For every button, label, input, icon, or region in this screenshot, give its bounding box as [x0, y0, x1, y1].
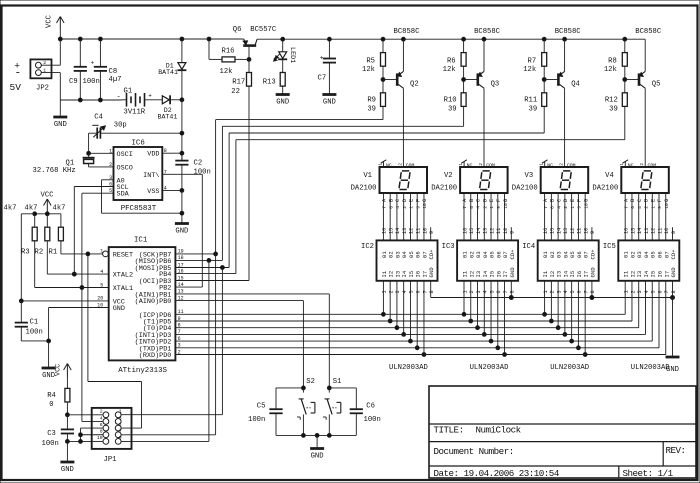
- display V1 segment pin E wire to driver: [409, 193, 415, 240]
- svg-text:G: G: [583, 199, 589, 202]
- driver IC4 pin labels: [542, 249, 596, 278]
- svg-text:R2: R2: [35, 248, 44, 256]
- driver IC5 input 1 wire to bus: [624, 281, 630, 315]
- wire PB5 to digit select net: [175, 266, 229, 270]
- svg-text:6: 6: [469, 206, 475, 209]
- wire driver GND bus: [431, 296, 675, 356]
- svg-text:10: 10: [503, 228, 509, 234]
- svg-text:16: 16: [462, 228, 468, 234]
- svg-text:COM: COM: [486, 162, 495, 168]
- IC6 pin VSS: [147, 185, 184, 196]
- capacitor C5: [248, 388, 303, 436]
- svg-text:C5: C5: [257, 402, 266, 410]
- wire segment bus PD6: [175, 313, 625, 315]
- resistor R9 39: [367, 80, 385, 120]
- svg-text:INT\: INT\: [143, 172, 159, 180]
- svg-text:4: 4: [483, 290, 489, 293]
- svg-text:NC: NC: [547, 162, 553, 168]
- display V4 segment pin C wire to driver: [637, 193, 643, 240]
- svg-text:IC5: IC5: [603, 243, 616, 251]
- svg-text:R17: R17: [232, 78, 245, 86]
- svg-text:39: 39: [367, 105, 376, 113]
- svg-text:GND: GND: [113, 305, 125, 313]
- driver IC3 pin labels: [462, 249, 516, 278]
- resistor R7 12k: [523, 37, 566, 81]
- svg-text:BC858C: BC858C: [555, 28, 582, 36]
- driver IC2 input 7 wire to bus: [422, 281, 428, 357]
- wire segment bus PD4: [175, 327, 638, 329]
- svg-text:9: 9: [415, 206, 421, 209]
- wire backup supply vertical to IC6 VDD: [181, 100, 183, 160]
- display V1 segment pin B wire to driver: [388, 193, 394, 240]
- svg-text:+: +: [91, 60, 95, 67]
- IC1 pin 8 (T0)PD4 label: [143, 323, 181, 334]
- driver IC5 pin 9 CD+ stub: [671, 227, 677, 240]
- svg-text:R10: R10: [444, 96, 457, 104]
- diode D1 BAT41: [158, 37, 186, 100]
- svg-text:Date: 19.04.2006 23:10:54: Date: 19.04.2006 23:10:54: [434, 468, 560, 479]
- svg-text:4k7: 4k7: [53, 204, 66, 212]
- svg-text:C8: C8: [109, 68, 118, 76]
- resistor R10 39: [444, 80, 466, 127]
- svg-text:13: 13: [483, 228, 489, 234]
- svg-text:6: 6: [416, 290, 422, 293]
- driver IC2 pin labels: [381, 249, 435, 278]
- capacitor C8 (polarized): [91, 37, 122, 102]
- wire PB0 to switch S2: [175, 301, 303, 388]
- driver IC2 ULN2003 box: [361, 240, 437, 372]
- wire PB3 to PWM drive: [175, 280, 249, 282]
- svg-text:NC: NC: [628, 162, 634, 168]
- svg-text:7: 7: [623, 206, 629, 209]
- driver IC3 input 1 wire to bus: [462, 281, 468, 316]
- svg-text:CD+: CD+: [589, 249, 596, 260]
- svg-text:R6: R6: [447, 57, 456, 65]
- svg-text:5: 5: [570, 290, 576, 293]
- svg-text:4k7: 4k7: [4, 204, 17, 212]
- svg-text:R5: R5: [366, 57, 375, 65]
- display V2 seven-segment digit: [480, 171, 491, 190]
- svg-text:4: 4: [402, 290, 408, 293]
- svg-text:D: D: [402, 199, 408, 202]
- display V2 segment pin D wire to driver: [482, 193, 488, 240]
- display V4 DA2100 box: [592, 167, 668, 193]
- display V4 segment pin G wire to driver: [664, 193, 670, 240]
- driver IC2 pin 8 GND wire: [429, 281, 435, 298]
- svg-text:100n: 100n: [364, 416, 381, 424]
- svg-text:IC4: IC4: [522, 243, 535, 251]
- driver IC4 input 1 wire to bus: [543, 281, 549, 316]
- svg-text:3: 3: [476, 290, 482, 293]
- wire VCC rail left segment: [58, 30, 243, 41]
- svg-text:8: 8: [164, 148, 167, 154]
- svg-text:Q3: Q3: [491, 80, 500, 88]
- display V3 segment pin C wire to driver: [556, 193, 562, 240]
- svg-text:9: 9: [671, 231, 677, 234]
- svg-text:GND: GND: [509, 267, 516, 278]
- svg-text:1: 1: [543, 290, 549, 293]
- battery G1 3V11R: [117, 87, 163, 116]
- svg-text:V4: V4: [605, 172, 614, 180]
- svg-text:REV:: REV:: [666, 445, 686, 456]
- driver IC5 input 2 wire to bus: [630, 281, 636, 321]
- svg-text:4: 4: [556, 206, 562, 209]
- svg-text:1: 1: [620, 163, 625, 166]
- svg-text:4k7: 4k7: [25, 204, 38, 212]
- svg-text:C: C: [476, 199, 482, 202]
- connector JP1: [92, 408, 132, 464]
- ground below switches: [310, 449, 324, 461]
- svg-text:15: 15: [550, 228, 556, 234]
- svg-text:10: 10: [97, 302, 103, 308]
- display V2 DA2100 box: [431, 167, 507, 193]
- svg-text:GND: GND: [589, 267, 596, 278]
- svg-text:V3: V3: [525, 172, 534, 180]
- svg-text:BC858C: BC858C: [635, 28, 662, 36]
- svg-text:12: 12: [651, 228, 657, 234]
- switch S1: [323, 378, 342, 435]
- svg-text:3: 3: [109, 175, 112, 181]
- svg-text:100n: 100n: [26, 328, 43, 336]
- display V2 segment pin F wire to driver: [496, 193, 502, 240]
- svg-text:COM: COM: [648, 162, 657, 168]
- svg-text:12k: 12k: [443, 66, 456, 74]
- svg-text:8: 8: [671, 290, 677, 293]
- IC6 PCF8583 box: [114, 139, 163, 213]
- ground for drivers (bottom right): [666, 357, 680, 374]
- svg-text:VCC: VCC: [46, 14, 54, 28]
- svg-text:Q5: Q5: [652, 80, 661, 88]
- ground below R13: [276, 95, 290, 107]
- svg-text:10: 10: [422, 228, 428, 234]
- svg-text:CD+: CD+: [670, 249, 677, 260]
- svg-text:10: 10: [664, 228, 670, 234]
- svg-text:F: F: [415, 199, 421, 202]
- IC6 pin OSCO: [89, 162, 133, 173]
- svg-text:7: 7: [462, 206, 468, 209]
- transistor Q6 BC557C: [233, 26, 277, 61]
- IC1 pin 9 (T1)PD5 label: [143, 316, 181, 327]
- svg-text:32.768 KHz: 32.768 KHz: [33, 167, 76, 175]
- wire MOSI vertical to JP1 pin1: [121, 268, 222, 415]
- svg-text:9: 9: [119, 435, 122, 441]
- svg-text:GND: GND: [54, 121, 67, 129]
- svg-text:9: 9: [657, 206, 663, 209]
- svg-text:6: 6: [657, 290, 663, 293]
- wire digit1 select vertical (PB7): [216, 120, 383, 435]
- svg-text:7: 7: [382, 206, 388, 209]
- ground below C7: [322, 95, 336, 107]
- svg-text:R9: R9: [367, 96, 376, 104]
- driver IC4 input 4 wire to bus: [563, 281, 569, 337]
- svg-text:3: 3: [119, 415, 122, 421]
- driver IC3 ULN2003 box: [442, 240, 518, 372]
- svg-text:SDA: SDA: [117, 191, 130, 199]
- svg-text:XTAL1: XTAL1: [113, 285, 133, 293]
- svg-text:2: 2: [563, 206, 569, 209]
- display V3 segment pin F wire to driver: [577, 193, 583, 240]
- svg-text:12k: 12k: [362, 66, 375, 74]
- svg-text:2: 2: [469, 290, 475, 293]
- trimmer capacitor C4 30p: [89, 114, 184, 154]
- svg-text:8: 8: [510, 290, 516, 293]
- driver IC3 input 2 wire to bus: [469, 281, 475, 323]
- wire switch ground row: [276, 434, 356, 448]
- display V1 pin COM: [398, 162, 414, 168]
- svg-text:16: 16: [543, 228, 549, 234]
- driver IC4 input 2 wire to bus: [549, 281, 555, 323]
- svg-text:16: 16: [624, 228, 630, 234]
- svg-text:NC: NC: [386, 162, 392, 168]
- display V3 pin NC: [540, 160, 553, 169]
- svg-text:9: 9: [590, 231, 596, 234]
- svg-text:1: 1: [624, 290, 630, 293]
- svg-text:10: 10: [583, 203, 589, 209]
- svg-text:6: 6: [630, 206, 636, 209]
- svg-text:GND: GND: [311, 453, 324, 461]
- display V3 pin COM: [560, 162, 576, 168]
- resistor R3 4k7: [4, 204, 38, 256]
- svg-text:15: 15: [388, 228, 394, 234]
- svg-text:7: 7: [583, 290, 589, 293]
- display V1 segment pin G wire to driver: [422, 193, 428, 240]
- svg-text:VDD: VDD: [147, 151, 159, 159]
- transistor Q5 BC858C: [625, 28, 662, 88]
- resistor R11 39: [524, 80, 546, 134]
- svg-text:CD+: CD+: [509, 249, 516, 260]
- svg-text:2: 2: [388, 290, 394, 293]
- wire switched VCC rail: [257, 37, 645, 41]
- svg-text:7: 7: [543, 206, 549, 209]
- svg-text:14: 14: [476, 228, 482, 234]
- resistor R5 12k: [362, 37, 405, 81]
- IC6 pin A0 wire to ground net: [102, 175, 184, 215]
- driver IC2 input 5 wire to bus: [409, 281, 415, 343]
- svg-text:R13: R13: [263, 78, 276, 86]
- display V1 segment pin D wire to driver: [402, 193, 408, 240]
- ground below JP2: [53, 100, 67, 129]
- LED1: [274, 39, 296, 72]
- wire segment bus PD5: [175, 320, 632, 322]
- switch S2: [297, 378, 315, 435]
- svg-text:R12: R12: [605, 96, 618, 104]
- svg-text:2: 2: [640, 163, 645, 166]
- svg-text:BC557C: BC557C: [250, 26, 277, 34]
- display V4 pin NC: [620, 160, 633, 169]
- svg-text:12: 12: [570, 228, 576, 234]
- display V4 segment pin A wire to driver: [623, 193, 629, 240]
- svg-text:ULN2003AD: ULN2003AD: [470, 364, 509, 372]
- driver IC5 input 4 wire to bus: [644, 281, 650, 335]
- display V1 pin NC: [378, 160, 391, 169]
- svg-text:(AIN0)PB0: (AIN0)PB0: [135, 298, 172, 306]
- svg-text:100n: 100n: [248, 416, 265, 424]
- wire Q5 collector to display COM: [644, 88, 646, 167]
- wire PB6 to digit select net: [175, 259, 222, 263]
- svg-text:COM: COM: [567, 162, 576, 168]
- svg-text:C4: C4: [94, 114, 103, 122]
- svg-text:6: 6: [577, 290, 583, 293]
- driver IC5 input 6 wire to bus: [657, 281, 663, 348]
- svg-text:C: C: [637, 199, 643, 202]
- svg-text:2: 2: [482, 206, 488, 209]
- svg-text:R8: R8: [608, 57, 617, 65]
- IC6 pin INT wire to IC1 PB2: [143, 169, 202, 287]
- svg-text:JP2: JP2: [36, 84, 49, 92]
- display V4 seven-segment digit: [641, 171, 652, 190]
- display V2 segment pin G wire to driver: [503, 193, 509, 240]
- svg-text:DA2100: DA2100: [592, 184, 618, 192]
- display V2 pin NC: [459, 160, 472, 169]
- svg-text:BC858C: BC858C: [474, 28, 501, 36]
- svg-text:9: 9: [510, 231, 516, 234]
- transistor Q3 BC858C: [464, 28, 501, 88]
- resistor R2 4k7: [25, 204, 50, 256]
- svg-text:4: 4: [476, 206, 482, 209]
- wire R1 to RESET: [61, 241, 103, 256]
- svg-text:16: 16: [382, 228, 388, 234]
- svg-text:12: 12: [409, 228, 415, 234]
- ground below IC6: [175, 190, 189, 235]
- svg-text:6: 6: [550, 206, 556, 209]
- svg-text:5: 5: [100, 282, 103, 288]
- svg-text:CD+: CD+: [428, 249, 435, 260]
- svg-text:7: 7: [503, 290, 509, 293]
- driver IC5 input 7 wire to bus: [664, 281, 670, 355]
- svg-text:RESET: RESET: [113, 251, 133, 259]
- IC1 pin 14 PB2 label: [159, 282, 183, 293]
- crystal Q1 32.768 KHz: [33, 151, 95, 174]
- svg-text:DA2100: DA2100: [431, 184, 457, 192]
- svg-text:Q4: Q4: [571, 80, 580, 88]
- display V4 segment pin D wire to driver: [644, 193, 650, 240]
- svg-text:R16: R16: [222, 47, 235, 55]
- svg-text:DA2100: DA2100: [351, 184, 377, 192]
- IC1 pin 19 (SCK)PB7 label: [139, 249, 184, 260]
- wire JP1 pin4 to SDA: [82, 420, 103, 422]
- resistor R4 0: [47, 377, 70, 417]
- IC6 pin VDD: [147, 148, 184, 159]
- svg-text:TITLE:: TITLE:: [434, 425, 464, 436]
- svg-text:2: 2: [644, 206, 650, 209]
- svg-text:-: -: [117, 94, 121, 102]
- svg-text:2: 2: [479, 163, 484, 166]
- svg-text:E: E: [570, 199, 576, 202]
- svg-text:C1: C1: [30, 318, 39, 326]
- IC1 pin 3 (TXD)PD1 label: [139, 343, 181, 354]
- svg-text:11: 11: [577, 228, 583, 234]
- wire Q2 collector to display COM: [402, 88, 404, 167]
- svg-text:C6: C6: [366, 402, 375, 410]
- resistor R6 12k: [443, 37, 486, 81]
- svg-text:PFC8583T: PFC8583T: [121, 205, 157, 213]
- svg-text:1: 1: [459, 163, 464, 166]
- svg-text:VSS: VSS: [147, 188, 159, 196]
- svg-text:20: 20: [97, 296, 103, 302]
- svg-text:OSCI: OSCI: [117, 151, 133, 159]
- svg-text:2: 2: [100, 409, 103, 415]
- IC1 pin 20 VCC: [19, 296, 125, 307]
- svg-text:G1: G1: [124, 87, 133, 95]
- IC1 pin 17 (MOSI)PB5 label: [135, 262, 184, 273]
- driver IC4 input 7 wire to bus: [583, 281, 589, 357]
- svg-text:4: 4: [164, 185, 167, 191]
- svg-text:13: 13: [644, 228, 650, 234]
- driver IC2 input 2 wire to bus: [388, 281, 394, 323]
- wire SCK to JP1 pin7: [121, 434, 215, 436]
- svg-text:12k: 12k: [604, 66, 617, 74]
- title block TITLE row: [434, 425, 522, 436]
- svg-text:OSCO: OSCO: [117, 164, 133, 172]
- svg-text:11: 11: [657, 228, 663, 234]
- display V3 seven-segment digit: [560, 171, 571, 190]
- svg-text:4: 4: [100, 415, 103, 421]
- svg-text:4: 4: [100, 269, 103, 275]
- svg-text:C: C: [395, 199, 401, 202]
- svg-text:1: 1: [489, 206, 495, 209]
- svg-text:Document Number:: Document Number:: [434, 446, 514, 457]
- svg-text:2: 2: [43, 60, 46, 66]
- svg-text:C2: C2: [194, 159, 203, 167]
- wire Q4 collector to display COM: [564, 88, 566, 167]
- transistor Q4 BC858C: [544, 28, 581, 88]
- driver IC3 input 5 wire to bus: [489, 281, 495, 343]
- svg-text:+: +: [148, 93, 152, 100]
- IC1 pin 16 PB4 label: [159, 268, 183, 279]
- wire segment bus PD0: [175, 354, 665, 356]
- svg-text:1: 1: [540, 163, 545, 166]
- driver IC2 input 3 wire to bus: [395, 281, 401, 330]
- IC1 pin 18 (MISO)PB6 label: [135, 255, 184, 266]
- svg-text:7: 7: [119, 429, 122, 435]
- svg-text:C9: C9: [69, 78, 78, 86]
- svg-text:12k: 12k: [523, 66, 536, 74]
- ground below C3: [60, 441, 74, 474]
- wire segment bus PD1: [175, 347, 659, 349]
- IC1 pin 2 (RXD)PD0 label: [139, 349, 181, 360]
- capacitor C3: [42, 415, 75, 448]
- display V1 segment pin A wire to driver: [382, 193, 388, 240]
- IC1 pin 15 (OCI)PB3 label: [139, 275, 184, 286]
- display V1 seven-segment digit: [399, 171, 410, 190]
- display V1 segment pin C wire to driver: [395, 193, 401, 240]
- svg-text:4: 4: [395, 206, 401, 209]
- svg-text:BC858C: BC858C: [394, 28, 421, 36]
- connector JP2: [30, 59, 60, 92]
- capacitor C1: [15, 301, 51, 343]
- svg-text:C3: C3: [47, 430, 56, 438]
- resistor R8 12k: [604, 37, 627, 81]
- svg-text:(RXD)PD0: (RXD)PD0: [139, 352, 172, 360]
- svg-text:100n: 100n: [42, 440, 59, 448]
- driver IC5 input 3 wire to bus: [637, 281, 643, 328]
- IC1 pin 7 (INT1)PD3 label: [135, 329, 181, 340]
- display V3 segment pin G wire to driver: [583, 193, 589, 240]
- display V4 segment pin B wire to driver: [630, 193, 636, 240]
- wire digit4 select vertical (PB4): [236, 140, 625, 274]
- svg-text:6: 6: [496, 290, 502, 293]
- svg-text:GND: GND: [42, 372, 55, 380]
- wire R2 to SCL/XTAL2: [47, 241, 108, 274]
- svg-text:10: 10: [97, 435, 103, 441]
- svg-text:R3: R3: [21, 248, 30, 256]
- svg-text:C: C: [556, 199, 562, 202]
- wire JP1 pin2 to VCC: [67, 414, 103, 416]
- wire PB2 to INT: [175, 286, 202, 288]
- svg-text:1: 1: [409, 206, 415, 209]
- svg-text:-: -: [15, 68, 22, 80]
- svg-text:2: 2: [550, 290, 556, 293]
